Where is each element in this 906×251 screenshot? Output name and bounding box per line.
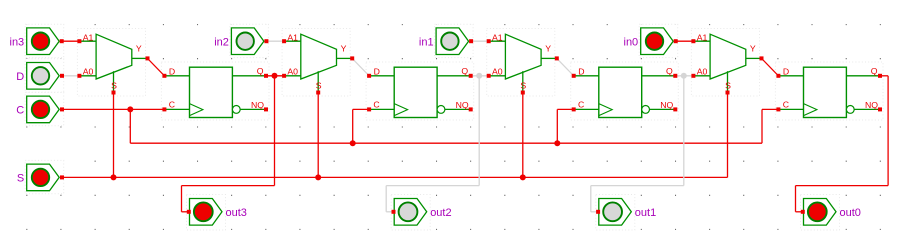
wire: in3 to mux A1 — [62, 40, 80, 42]
wire: mux1 Y to DFF D (diagonal) — [148, 58, 165, 75]
wire: in2 to mux A1 — [266, 40, 284, 42]
svg-text:Y: Y — [341, 43, 347, 53]
wire: DFF4 Q to out0 — [880, 75, 888, 77]
op: D flip-flop U6 — [367, 66, 473, 118]
svg-text:C: C — [578, 100, 584, 110]
terminal pin symbol — [804, 199, 837, 226]
svg-text:C: C — [169, 100, 175, 110]
terminal pin symbol — [27, 96, 60, 123]
wire: in0 to mux A1 — [676, 40, 694, 42]
terminal pin symbol — [27, 63, 60, 90]
wire: clock riser slice 2 — [556, 109, 558, 143]
input pin in0 — [624, 28, 678, 55]
svg-text:out3: out3 — [226, 207, 247, 219]
terminal pin symbol — [27, 28, 60, 55]
svg-text:A1: A1 — [287, 32, 298, 42]
junction: Q3 — [681, 73, 687, 79]
wire: mux3 Y to DFF D (diagonal) — [557, 58, 574, 75]
svg-text:in0: in0 — [624, 36, 639, 48]
input pin D — [16, 63, 64, 90]
svg-text:Q: Q — [461, 66, 468, 76]
op: mux U4 2-to-1 multiplexer — [691, 32, 763, 94]
svg-text:D: D — [374, 67, 380, 77]
input pin in2 — [214, 28, 268, 55]
svg-text:S: S — [725, 80, 731, 90]
svg-text:C: C — [373, 100, 379, 110]
wire: DFF1 Q to mux2 A0 — [266, 75, 284, 77]
svg-text:S: S — [520, 80, 526, 90]
terminal pin symbol — [190, 199, 223, 226]
svg-text:A1: A1 — [697, 32, 708, 42]
svg-text:in2: in2 — [214, 36, 229, 48]
svg-text:Y: Y — [545, 43, 551, 53]
terminal pin symbol — [394, 199, 427, 226]
wire: DFF2 Q to mux3 A0 — [471, 75, 489, 77]
grid dots — [26, 25, 881, 230]
output pin out1 — [596, 199, 656, 226]
wire: DFF3 Q to mux4 A0 — [675, 75, 693, 77]
svg-text:NQ: NQ — [456, 100, 469, 110]
output pin out2 — [392, 199, 452, 226]
wire: clock riser slice 1 — [352, 109, 354, 143]
svg-text:C: C — [783, 100, 789, 110]
terminal pin symbol — [436, 28, 469, 55]
svg-text:S: S — [17, 173, 24, 185]
input pin in3 — [10, 28, 64, 55]
wire: out3 riser — [274, 76, 276, 186]
op: mux U1 2-to-1 multiplexer — [77, 32, 149, 94]
svg-text:C: C — [16, 105, 24, 117]
svg-text:Q: Q — [871, 66, 878, 76]
svg-text:A1: A1 — [83, 32, 94, 42]
svg-text:out0: out0 — [840, 207, 861, 219]
wire: clock trunk — [129, 109, 131, 143]
junction: select — [520, 174, 526, 180]
svg-text:in3: in3 — [10, 36, 25, 48]
terminal pin symbol — [231, 28, 264, 55]
wire: out1 riser — [683, 76, 685, 186]
component background boxes — [77, 29, 145, 97]
wire: in1 to mux A1 — [471, 40, 489, 42]
wire: C pin to DFF1 C — [62, 108, 164, 110]
terminal pin symbol — [641, 28, 674, 55]
op: D flip-flop U7 — [572, 66, 678, 118]
wire: mux3 S riser — [522, 93, 524, 178]
output pin out3 — [187, 199, 247, 226]
svg-text:D: D — [169, 67, 175, 77]
op: D flip-flop U5 — [162, 66, 268, 118]
output pin out0 — [801, 199, 861, 226]
svg-text:in1: in1 — [419, 36, 434, 48]
terminal pin symbol — [27, 164, 60, 191]
svg-text:D: D — [578, 67, 584, 77]
input pin S — [17, 164, 64, 191]
junction: select — [111, 174, 117, 180]
svg-text:NQ: NQ — [660, 100, 673, 110]
svg-text:A0: A0 — [697, 67, 708, 77]
input pin in1 — [419, 28, 473, 55]
svg-text:A0: A0 — [492, 67, 503, 77]
op: mux U2 2-to-1 multiplexer — [282, 32, 354, 94]
op: D flip-flop U8 — [776, 66, 882, 118]
wire: mux2 S riser — [317, 93, 319, 178]
wire: mux1 S riser — [113, 93, 115, 178]
terminal pin symbol — [599, 199, 632, 226]
svg-text:D: D — [783, 67, 789, 77]
input pin C — [16, 96, 64, 123]
svg-text:NQ: NQ — [865, 100, 878, 110]
svg-text:A0: A0 — [83, 67, 94, 77]
wire: D pin to mux1 A0 — [62, 75, 79, 77]
op: mux U3 2-to-1 multiplexer — [487, 32, 559, 94]
wire: mux2 Y to DFF D (diagonal) — [352, 58, 369, 75]
svg-text:Y: Y — [750, 43, 756, 53]
svg-text:Q: Q — [257, 66, 264, 76]
svg-text:A0: A0 — [287, 67, 298, 77]
wire: out2 riser — [478, 76, 480, 186]
wire: mux4 S riser — [727, 93, 729, 178]
wire: S select trunk — [62, 176, 728, 178]
svg-text:A1: A1 — [492, 32, 503, 42]
svg-text:out1: out1 — [635, 207, 656, 219]
svg-text:out2: out2 — [430, 207, 451, 219]
junction: Q1 — [272, 73, 278, 79]
wire: mux4 Y to DFF D (diagonal) — [762, 58, 779, 75]
svg-text:Y: Y — [136, 43, 142, 53]
svg-text:Q: Q — [666, 66, 673, 76]
svg-text:NQ: NQ — [251, 100, 264, 110]
junction: Q2 — [476, 73, 482, 79]
svg-text:S: S — [316, 80, 322, 90]
svg-text:D: D — [16, 71, 24, 83]
svg-text:S: S — [111, 80, 117, 90]
junction: select — [315, 174, 321, 180]
junction: clock — [127, 106, 133, 112]
